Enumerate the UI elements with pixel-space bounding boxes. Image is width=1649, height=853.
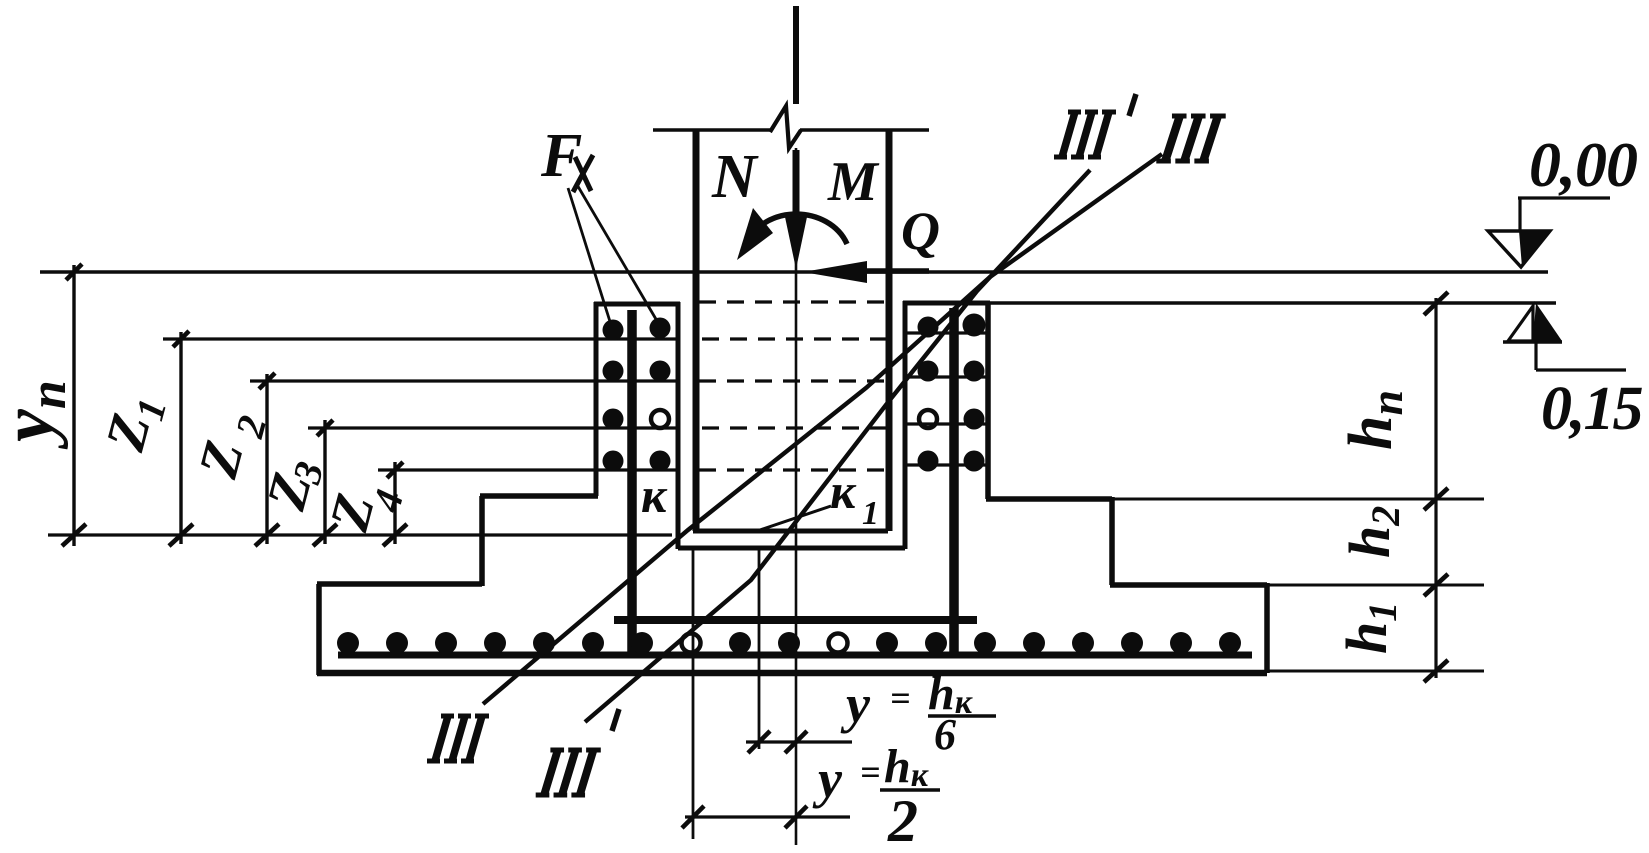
svg-text:1: 1 — [862, 495, 879, 532]
svg-text:N: N — [711, 143, 759, 211]
svg-text:Q: Q — [901, 201, 940, 261]
svg-text:F: F — [540, 122, 582, 190]
svg-text:2: 2 — [887, 788, 918, 853]
svg-text:0,00: 0,00 — [1529, 129, 1637, 200]
svg-text:к: к — [830, 463, 857, 519]
svg-text:M: M — [827, 151, 880, 213]
svg-text:0,15: 0,15 — [1541, 375, 1643, 443]
svg-text:=: = — [860, 752, 881, 792]
svg-text:к: к — [641, 467, 668, 523]
svg-text:=: = — [890, 678, 911, 718]
